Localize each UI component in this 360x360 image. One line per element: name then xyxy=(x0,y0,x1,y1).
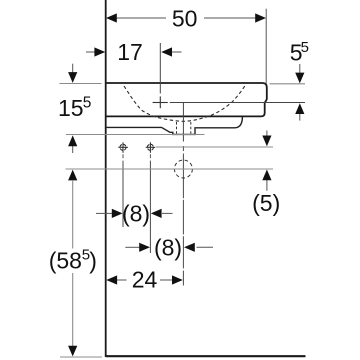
fixing hole right: circle + cross xyxy=(146,142,156,153)
dimension (8) #1 (wall to first hole): outside arrows xyxy=(96,212,112,214)
dimension 17: outside arrows xyxy=(86,51,97,53)
floor line xyxy=(106,355,306,357)
extension line: 50 right edge, above basin xyxy=(265,9,267,84)
svg-text:(8): (8) xyxy=(154,234,182,260)
hidden drain pipe edges (dashed) xyxy=(176,122,178,134)
dimension 15.5 (left): outside arrows xyxy=(72,64,74,74)
svg-text:5: 5 xyxy=(83,95,92,112)
dimension 50: line + inside arrows xyxy=(113,17,166,19)
extension line: basin top level, left of wall (for 15.5) xyxy=(59,83,101,85)
trap / siphon outline xyxy=(106,117,243,135)
dimension 5.5 (right): outside arrows xyxy=(299,64,301,74)
svg-text:5: 5 xyxy=(301,39,309,56)
svg-text:50: 50 xyxy=(172,6,198,32)
dimension (5) (right, fixing axis to drain axis): outside arrows xyxy=(266,131,268,138)
floor extension line (gray, left of wall) xyxy=(60,356,102,358)
svg-text:15: 15 xyxy=(58,95,84,121)
svg-text:(8): (8) xyxy=(122,200,150,226)
extension line: rim top to right (for 5.5) xyxy=(270,83,306,85)
extension line: basin bottom level (for 15.5) xyxy=(66,134,205,136)
svg-text:): ) xyxy=(89,247,97,273)
basin outline xyxy=(106,83,267,116)
drain axis centre line (lower view) xyxy=(182,146,184,158)
thin line across basin (overflow level / 5.5 extension), from faucet cross to right xyxy=(170,102,305,104)
wall line xyxy=(105,0,107,357)
fixing hole left centre line down xyxy=(122,154,124,158)
drain axis line (upper, solid through trap) xyxy=(182,103,184,142)
svg-text:17: 17 xyxy=(117,39,143,65)
extension line: drain axis full width (for (5) and (58.5)) xyxy=(66,168,274,170)
faucet hole centre cross xyxy=(153,102,168,104)
drain hole (dashed circle) xyxy=(174,160,192,178)
svg-text:(58: (58 xyxy=(49,247,82,273)
svg-text:(5): (5) xyxy=(252,190,280,216)
dimension 24 (wall to drain axis): inside arrows xyxy=(106,275,117,284)
fixing hole right centre line down xyxy=(149,154,151,158)
svg-text:24: 24 xyxy=(132,267,158,293)
extension line: fixing hole axis to right (for (5)) xyxy=(156,146,273,148)
fixing hole left: circle + cross xyxy=(118,142,128,153)
basin inner bowl (dashed hidden line) xyxy=(124,84,246,121)
dimension (58.5) (drain axis to floor): inside arrows xyxy=(68,170,77,181)
dimension (8) #2 (first hole to drain axis): outside arrows xyxy=(125,246,140,248)
faucet axis extension line above rim xyxy=(159,43,161,94)
